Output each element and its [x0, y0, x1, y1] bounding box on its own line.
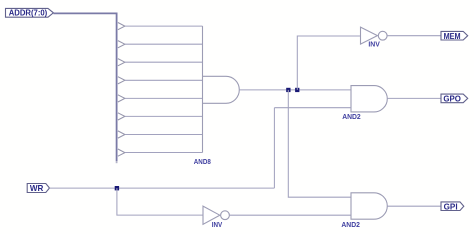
wire tap line 8: [125, 152, 203, 154]
wire tap line 2: [125, 43, 203, 45]
node junction dot A: [286, 88, 290, 92]
wire tap line 3: [125, 61, 203, 63]
output tag MEM: [441, 31, 468, 40]
node junction dot B: [295, 88, 299, 92]
wire junction B up to INV: [297, 36, 360, 90]
svg-text:GPO: GPO: [443, 94, 461, 104]
wire INV bottom output to AND2 bottom: [229, 214, 351, 216]
wire AND8 output to AND2: [239, 89, 351, 91]
bus tap triangle 7: [118, 131, 125, 138]
svg-text:MEM: MEM: [444, 31, 461, 41]
wire AND2 top output to GPO: [387, 97, 441, 99]
and-gate U1 AND8 input bar: [202, 26, 204, 152]
inverter U4 INV bottom bubble: [221, 211, 230, 220]
and-gate U5 AND2 bottom body: [351, 193, 387, 219]
svg-text:GPI: GPI: [444, 201, 458, 211]
node junction dot C on WR wire: [115, 186, 119, 190]
wire WR riser to AND2 top second input: [274, 107, 351, 109]
wire INV to MEM: [387, 35, 441, 37]
output tag GPI: [441, 202, 464, 211]
and-gate U1 AND8 body: [203, 76, 240, 103]
inverter U2 INV bubble: [378, 31, 387, 40]
wire junction A down to AND2 bottom input: [288, 90, 351, 197]
bus tap triangle 2: [118, 41, 125, 48]
wire WR riser vertical: [273, 108, 275, 188]
inverter U4 INV bottom triangle: [203, 206, 220, 224]
svg-text:AND2: AND2: [342, 114, 361, 121]
svg-text:AND8: AND8: [194, 159, 211, 166]
input tag ADDR(7:0): [6, 8, 54, 17]
svg-text:ADDR(7:0): ADDR(7:0): [9, 9, 48, 18]
bus tap triangle 5: [118, 95, 125, 102]
input tag WR: [27, 184, 49, 193]
wire bus ADDR vertical: [116, 13, 118, 162]
output tag GPO: [441, 94, 468, 103]
wire junction C down to INV bottom: [117, 188, 203, 215]
svg-text:WR: WR: [30, 183, 44, 193]
wire WR horizontal: [50, 187, 275, 189]
bus tap triangle 4: [118, 77, 125, 84]
inverter U2 INV triangle: [361, 27, 378, 44]
wire tap line 4: [125, 79, 203, 81]
wire AND2 bottom output to GPI: [387, 205, 441, 207]
wire tap line 6: [125, 115, 203, 117]
svg-text:AND2: AND2: [341, 222, 360, 229]
wire tap line 1: [125, 25, 203, 27]
bus tap triangle 6: [118, 113, 125, 120]
svg-text:INV: INV: [368, 42, 380, 49]
bus tap triangle 1: [118, 23, 125, 30]
and-gate U3 AND2 top body: [351, 86, 387, 112]
wire tap line 7: [125, 134, 203, 136]
wire bus ADDR horizontal: [53, 12, 116, 14]
wire tap line 5: [125, 97, 203, 99]
bus tap triangle 8: [118, 149, 125, 156]
svg-text:INV: INV: [212, 222, 223, 229]
bus tap triangle 3: [118, 59, 125, 66]
